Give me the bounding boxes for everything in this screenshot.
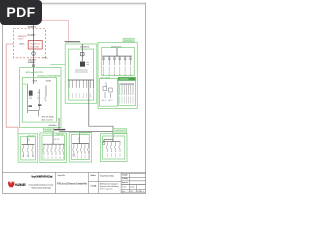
svg-text:MCCB 2: MCCB 2 — [46, 80, 52, 82]
panel C terminal row — [75, 70, 88, 72]
DB-B bus — [43, 143, 65, 145]
svg-text:Import export Specializes in e: Import export Specializes in electrical … — [28, 183, 53, 186]
DB-D inner box — [103, 136, 125, 159]
svg-text:Stage/Station Bldg: Stage/Station Bldg — [100, 174, 115, 177]
generator panel internals — [28, 84, 46, 117]
panel P1 internals — [103, 82, 112, 98]
panel RF breaker squares — [103, 58, 132, 60]
svg-text:Generator(Cummins) DG-500KVA: Generator(Cummins) DG-500KVA — [37, 74, 61, 77]
svg-text:ATS Panel 415V TPN: ATS Panel 415V TPN — [26, 71, 43, 74]
panel P2 breaker drops — [120, 84, 133, 95]
svg-text:00: 00 — [130, 191, 133, 193]
panel RF bottom marks — [104, 73, 131, 76]
feeder breaker square — [32, 65, 34, 67]
DB-C meter circle — [73, 154, 75, 156]
gen breaker block1 — [29, 91, 33, 96]
gen chain2 marks — [37, 93, 40, 99]
panel C main breaker — [81, 52, 84, 55]
svg-text:Plot Layouts: Plot Layouts — [100, 188, 114, 191]
DB-A outer box — [18, 134, 38, 162]
drawing title value — [100, 182, 120, 190]
panel P2 inner box — [118, 77, 135, 105]
panel C ATS block — [80, 62, 85, 67]
panel C side marks — [86, 62, 89, 64]
svg-text:AC-1: AC-1 — [102, 99, 106, 102]
DB-A bottom terminals — [23, 155, 33, 157]
revision table labels — [122, 174, 144, 193]
bus wire gen to bottom row — [47, 118, 113, 144]
svg-text:Checked by: Checked by — [122, 178, 128, 180]
svg-text:DB-B 415: DB-B 415 — [56, 134, 64, 136]
DB-B tab label — [43, 128, 53, 132]
transformer labels — [18, 36, 41, 49]
DB-A inner box — [20, 137, 35, 160]
generator inner box — [22, 78, 56, 123]
DB-C drop labels — [78, 155, 89, 159]
DB-C bus — [72, 143, 89, 145]
svg-text:Sh: Sh — [137, 191, 140, 193]
busbar into panel C top — [65, 41, 80, 42]
generator group outer box — [20, 67, 61, 127]
gen MCCB labels — [33, 80, 52, 82]
utility meter — [32, 52, 36, 56]
gen block1 text marks — [29, 97, 32, 99]
svg-text:DB-C 415V TPN: DB-C 415V TPN — [81, 133, 92, 135]
DB-C outer box — [69, 132, 91, 162]
DB-D breaker drops — [106, 142, 120, 152]
svg-text:Drawing Title: Drawing Title — [90, 185, 97, 188]
gen contactor dash1 — [29, 105, 33, 107]
svg-text:MCCB: MCCB — [33, 80, 38, 82]
panel P2 header text — [120, 78, 129, 80]
DB-D tab label — [113, 129, 127, 134]
svg-text:TR-01: TR-01 — [43, 58, 48, 60]
svg-text:415V: 415V — [23, 84, 28, 86]
transformer TR red box — [28, 41, 42, 49]
svg-text:Auto transfer: Auto transfer — [42, 118, 54, 121]
DB-C stem breaker — [78, 139, 80, 141]
panel P1 bottom labels — [102, 99, 113, 102]
svg-text:Approved: Approved — [122, 181, 128, 184]
svg-text:50Hz: 50Hz — [18, 39, 24, 41]
panel P2 header — [118, 77, 135, 80]
svg-text:Example HUAWEI INTERNATIONAL C: Example HUAWEI INTERNATIONAL CO. Limited — [31, 176, 53, 179]
svg-text:MCCB: MCCB — [54, 139, 60, 141]
ATS label — [42, 116, 58, 127]
panel C inner box — [69, 49, 94, 100]
panel C drop labels — [69, 93, 90, 98]
panel P2 drop labels — [120, 97, 133, 104]
right group tab label — [123, 38, 134, 42]
svg-text:All Single Line Diagrams: All Single Line Diagrams — [100, 182, 120, 185]
panel C breaker drops — [69, 80, 93, 88]
panel P1 inner box — [100, 79, 118, 107]
red feeder wire left loop — [6, 44, 18, 134]
panel RF inner box — [102, 47, 135, 75]
panel C bus — [68, 79, 94, 81]
cable label text — [20, 27, 37, 65]
svg-text:Professional manufacturer and: Professional manufacturer and trade tech… — [31, 186, 51, 189]
gen contactor dash2 — [38, 104, 41, 106]
DB-D meter — [103, 142, 105, 144]
svg-text:1000 KVA: 1000 KVA — [30, 46, 40, 49]
PDF badge — [0, 0, 42, 25]
svg-text:(C) MDB-01: (C) MDB-01 — [80, 47, 90, 49]
DB-D outer box — [100, 134, 127, 162]
svg-text:Drawing No: Drawing No — [122, 174, 128, 177]
DB-B inner box — [42, 135, 65, 160]
svg-text:Busway 11kV: Busway 11kV — [28, 34, 37, 36]
red dashed utility boundary box — [14, 29, 46, 58]
svg-text:Transformer: Transformer — [30, 42, 41, 45]
panel C stem — [81, 44, 83, 61]
right group outer box — [98, 43, 137, 109]
DB-B drop labels — [44, 156, 64, 159]
DB-D bus — [103, 141, 121, 143]
svg-text:Rev: Rev — [122, 191, 125, 193]
panel P2 bus — [120, 83, 135, 85]
wire C to DB-D — [89, 80, 113, 142]
svg-text:Site Name: Site Name — [90, 174, 97, 177]
sheet frame — [3, 3, 146, 193]
panel RF breaker drops — [104, 56, 131, 65]
svg-text:ATS in: ATS in — [20, 43, 25, 46]
panel RF stem — [116, 48, 118, 56]
svg-text:DB-A 415V: DB-A 415V — [28, 134, 37, 137]
svg-text:AC-2: AC-2 — [109, 99, 113, 102]
svg-text:Scale: Scale — [122, 187, 127, 189]
DB-B breaker drops — [43, 144, 64, 155]
utility feeder wire — [33, 24, 35, 84]
panel C outer box — [65, 44, 97, 103]
DB-A stem breaker — [28, 139, 30, 141]
DB-D drop labels — [107, 153, 120, 157]
red feeder wire to panel C — [42, 20, 69, 41]
svg-text:1:100: 1:100 — [130, 187, 134, 189]
title block borders — [3, 172, 146, 193]
svg-text:XLPE/SWA: XLPE/SWA — [28, 61, 36, 64]
DB-A breaker drops — [22, 145, 33, 155]
panel RF bus — [102, 55, 131, 57]
svg-text:DB-RF 415V: DB-RF 415V — [111, 46, 122, 48]
svg-text:Project Title: Project Title — [57, 174, 66, 177]
DB-D feeder elbow — [104, 140, 113, 142]
panel RF drop labels — [104, 67, 131, 74]
generator group labels — [26, 71, 61, 78]
svg-text:P-08 Ground 13 Haramain Substa: P-08 Ground 13 Haramain Substation Plant — [57, 182, 88, 185]
green connector line gen-to-C — [51, 63, 66, 65]
DB-A stem — [27, 137, 29, 145]
svg-text:2x4Cx185mm: 2x4Cx185mm — [48, 125, 57, 127]
DB-C inner box — [71, 135, 89, 160]
gen feeder hook — [45, 97, 46, 101]
DB-A bus — [22, 144, 35, 146]
svg-text:Reports Plant Building: Reports Plant Building — [100, 185, 120, 188]
DB-B outer box — [40, 133, 67, 162]
svg-text:DB-P1 415V AC: DB-P1 415V AC — [100, 76, 111, 79]
svg-text:ATS 4P 800A: ATS 4P 800A — [42, 116, 55, 119]
svg-text:HUAWEI: HUAWEI — [15, 182, 26, 187]
company logo petals — [8, 181, 14, 188]
DB-C breaker drops — [73, 144, 89, 155]
